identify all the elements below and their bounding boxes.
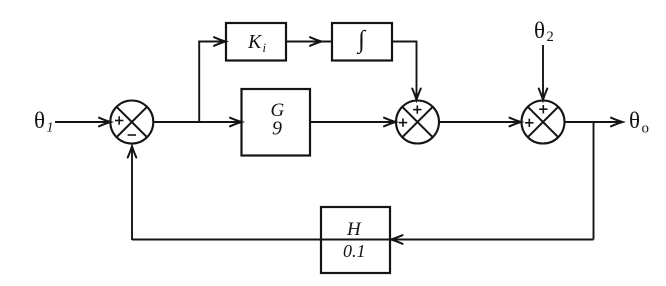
block G 9 <box>242 89 311 156</box>
plus sign at S3 top input <box>539 105 547 113</box>
svg-text:θ: θ <box>34 108 45 133</box>
wire S1 output to block G with arrowhead <box>153 118 241 127</box>
plus sign at S1 left input <box>115 116 123 124</box>
svg-text:9: 9 <box>272 118 282 140</box>
plus sign at S2 top input <box>413 105 421 113</box>
summing junction S2 <box>396 101 439 144</box>
block integrator <box>332 23 392 61</box>
summing junction S3 <box>522 101 565 144</box>
svg-text:θ: θ <box>534 18 545 43</box>
block H 0.1 <box>321 207 390 273</box>
plus sign at S3 left input <box>525 119 533 127</box>
wire theta2 down to S3 with arrowhead <box>539 45 548 100</box>
svg-text:∫: ∫ <box>356 27 366 55</box>
svg-text:θ: θ <box>629 108 640 133</box>
wire G to summer S2 with arrowhead <box>310 118 396 127</box>
wire branch node up to Ki with arrowhead <box>198 37 225 122</box>
svg-text:0.1: 0.1 <box>343 241 366 261</box>
wire theta1 to summer S1 with arrowhead <box>55 118 110 127</box>
summing junction S1 <box>110 101 153 144</box>
wire Ki to integrator with mid arrowhead <box>286 37 332 46</box>
minus sign at S1 bottom input <box>128 134 136 136</box>
svg-text:i: i <box>263 41 267 55</box>
svg-text:K: K <box>247 31 263 53</box>
wire integrator down to summer S2 with arrowhead <box>392 41 421 100</box>
wire feedback horizontal through block H with arrowhead <box>132 235 594 244</box>
block Ki <box>226 23 286 61</box>
wire S2 to summer S3 with arrowhead <box>439 118 521 127</box>
node thetao output label <box>629 108 649 137</box>
wire S3 to output thetao with arrowhead <box>565 118 624 127</box>
plus sign at S2 left input <box>399 118 407 126</box>
svg-text:1: 1 <box>47 121 54 136</box>
svg-text:2: 2 <box>547 29 554 45</box>
wire feedback tap down from output node <box>593 122 595 240</box>
node theta2 disturbance label <box>534 18 554 45</box>
svg-text:o: o <box>642 121 650 137</box>
node theta1 input label <box>34 108 54 136</box>
wire feedback up into S1 with arrowhead <box>128 146 137 240</box>
svg-text:H: H <box>346 219 362 240</box>
